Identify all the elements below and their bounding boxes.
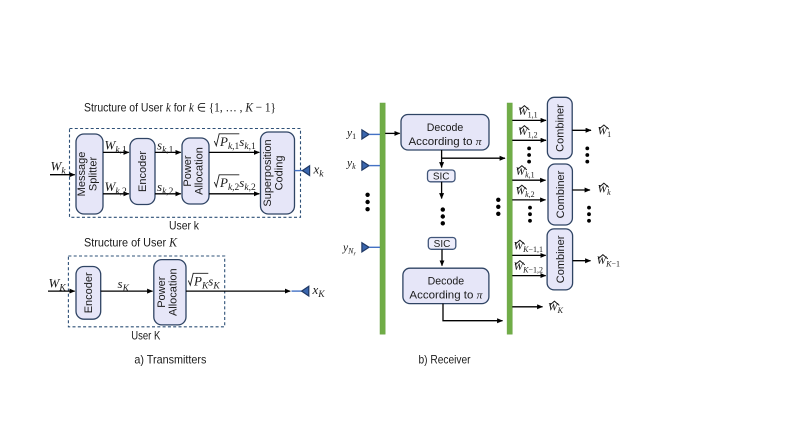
svg-text:Combiner: Combiner: [555, 235, 567, 283]
wire Wk input arrow: [50, 174, 75, 176]
svg-text:Power: Power: [182, 155, 194, 187]
svg-text:Allocation: Allocation: [168, 268, 180, 316]
svg-text:SIC: SIC: [433, 172, 450, 183]
label sqrt(Pk2)sk2: [214, 175, 256, 193]
green bar output bus: [507, 103, 512, 334]
label x_k: [313, 162, 325, 180]
dots decode to bus: [496, 198, 500, 216]
svg-text:Coding: Coding: [274, 156, 286, 191]
wire sk1 arrow: [155, 151, 181, 153]
wire decode2 to bar2: [443, 304, 503, 321]
wire yk to bar: [369, 165, 380, 167]
label W_k1: [105, 138, 127, 156]
block Decode According to pi (bottom): [403, 268, 489, 303]
svg-text:According to π: According to π: [409, 290, 483, 302]
label What_K-1,2: [514, 261, 543, 275]
label User K: [131, 329, 160, 343]
svg-text:Encoder: Encoder: [83, 272, 95, 313]
label What_K-1,1: [514, 240, 543, 254]
block Decode According to pi (top): [401, 115, 489, 151]
wire WK input arrow: [48, 290, 75, 292]
wire Wk1 arrow: [103, 151, 129, 153]
block Encoder (user K): [76, 267, 101, 320]
label What_11: [518, 106, 538, 120]
wire xk blue line: [295, 170, 303, 172]
svg-text:According to π: According to π: [409, 136, 483, 148]
label y_1: [346, 128, 356, 142]
svg-text:a) Transmitters: a) Transmitters: [134, 353, 206, 367]
antenna y1: [362, 130, 369, 139]
dashed box User K: [68, 256, 224, 327]
wire W11 arrow: [512, 119, 546, 121]
label What_k1: [516, 166, 535, 180]
antenna yk: [362, 161, 369, 170]
wire decode1 to bar2: [442, 157, 505, 159]
title: Structure of User K: [84, 235, 178, 250]
label x_K: [312, 282, 326, 300]
dots between combiner 1 and 2: [527, 147, 531, 164]
antenna yNr: [362, 243, 369, 252]
label User k: [169, 219, 200, 233]
label What_k: [598, 183, 612, 197]
dots SIC chain: [441, 207, 445, 225]
label W_K: [49, 276, 67, 294]
title: Structure of User k for k in {1,...,K-1}: [84, 100, 276, 115]
wire y1 to bar: [369, 133, 380, 135]
label What_k2: [516, 185, 535, 199]
wire decode1 down branch: [441, 150, 443, 158]
svg-text:Superposition: Superposition: [262, 139, 274, 206]
wire W12 arrow: [512, 139, 546, 141]
svg-text:Structure of User K: Structure of User K: [84, 235, 178, 250]
svg-text:Decode: Decode: [427, 122, 464, 134]
label sqrt(Pk1)sk1: [214, 134, 256, 152]
svg-text:Splitter: Splitter: [88, 157, 100, 192]
wire sK arrow: [101, 290, 153, 292]
label s_K: [118, 276, 130, 294]
label What_1: [598, 125, 612, 139]
wire decode1 to SIC1: [441, 158, 443, 167]
block SIC 1: [428, 170, 456, 183]
label s_k2: [157, 179, 174, 197]
caption b) Receiver: [419, 353, 471, 367]
label y_k: [346, 157, 356, 171]
wire W1 output arrow: [572, 129, 591, 131]
wire WK-1,2 arrow: [512, 275, 545, 277]
block Encoder (user k): [130, 139, 155, 205]
green bar receive antenna array: [380, 103, 385, 334]
antenna xk: [302, 166, 309, 176]
dots right of Wk: [587, 206, 591, 223]
wire sk2 arrow: [155, 193, 181, 195]
wire SIC2 to decode2: [441, 249, 443, 265]
svg-text:SIC: SIC: [434, 239, 451, 250]
wire WK hat output arrow: [512, 306, 542, 308]
svg-text:Structure of User k for k ∈ {1: Structure of User k for k ∈ {1, … , K − …: [84, 100, 276, 115]
wire Wk1 hat arrow: [512, 179, 545, 181]
block Power Allocation (user K): [154, 260, 186, 325]
svg-text:Combiner: Combiner: [555, 104, 567, 152]
block Combiner 2: [548, 164, 572, 225]
svg-text:Decode: Decode: [428, 276, 465, 288]
wire sqrtPk1 arrow: [209, 151, 259, 153]
label What_12: [518, 126, 538, 140]
wire sqrtPK long arrow: [186, 290, 290, 292]
svg-text:User k: User k: [169, 219, 200, 233]
block Power Allocation (user k): [182, 138, 209, 204]
svg-text:Message: Message: [76, 152, 88, 197]
caption a) Transmitters: [134, 353, 206, 367]
svg-text:b) Receiver: b) Receiver: [419, 353, 471, 367]
label y_Nr: [342, 242, 356, 257]
label W_k: [51, 159, 67, 177]
wire bar1 to decode1: [385, 132, 400, 134]
block SIC 2: [428, 238, 456, 251]
wire xK blue line: [292, 290, 302, 292]
block Superposition Coding: [261, 132, 295, 214]
dots between combiner 2 and 3: [528, 206, 532, 223]
wire SIC1 down arrow: [441, 182, 443, 199]
antenna xK: [302, 286, 309, 296]
wire WK-1,1 arrow: [512, 254, 545, 256]
block Combiner 1: [547, 97, 572, 159]
label What_K-1: [597, 255, 620, 269]
wire Wk2 hat arrow: [512, 199, 545, 201]
svg-text:Combiner: Combiner: [555, 170, 567, 218]
wire Wk2 arrow: [103, 193, 129, 195]
dashed box User k: [70, 129, 301, 218]
svg-text:Encoder: Encoder: [137, 151, 149, 192]
label s_k1: [157, 138, 174, 156]
dots antennas: [365, 193, 369, 212]
wire Wk output arrow: [572, 189, 590, 191]
dots right of W1: [585, 147, 589, 164]
wire WK-1 output arrow: [573, 260, 591, 262]
label What_K: [548, 301, 564, 315]
block Combiner 3: [547, 229, 573, 290]
svg-text:User K: User K: [131, 329, 160, 343]
label W_k2: [105, 179, 127, 197]
wire sqrtPk2 arrow: [209, 193, 259, 195]
block Message Splitter: [76, 134, 103, 214]
wire yNr to bar: [369, 246, 380, 248]
label sqrt(PK)sK: [188, 273, 220, 291]
svg-text:Allocation: Allocation: [194, 147, 206, 195]
svg-text:Power: Power: [156, 276, 168, 308]
